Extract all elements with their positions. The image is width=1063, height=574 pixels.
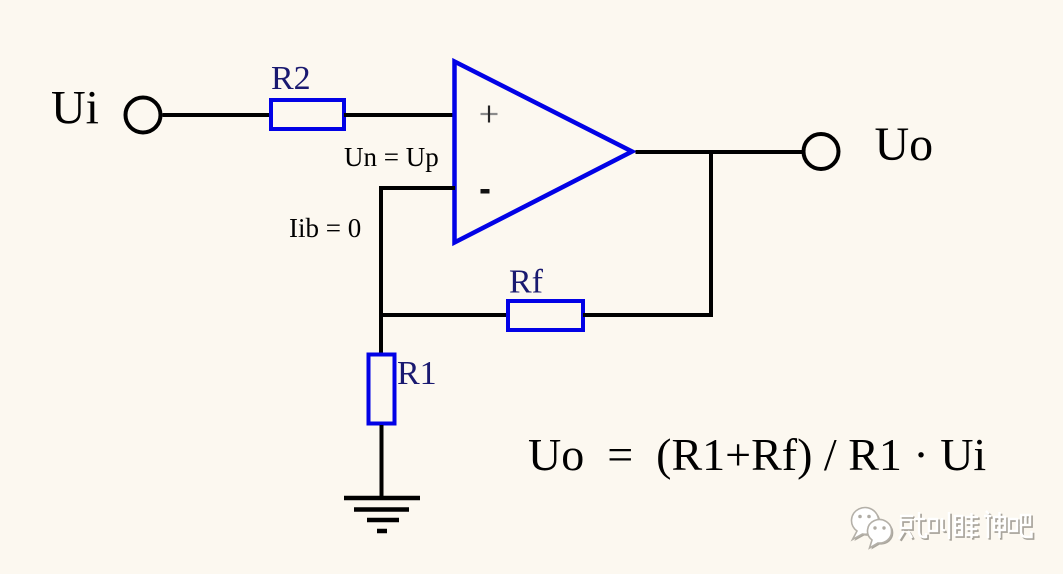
svg-text:Un = Up: Un = Up — [344, 142, 439, 172]
wire R1 to ground — [380, 425, 384, 498]
resistor R2 — [271, 100, 344, 129]
svg-text:R2: R2 — [271, 60, 311, 97]
watermark logo face — [852, 508, 892, 548]
watermark text face — [899, 511, 1032, 539]
wire feedback right segment — [583, 313, 713, 317]
output terminal circle — [804, 134, 839, 169]
wire feedback left segment — [379, 313, 508, 317]
svg-text:Ui: Ui — [51, 82, 99, 135]
wire inverting node vertical down to R1 — [379, 186, 383, 353]
svg-text:Iib = 0: Iib = 0 — [289, 213, 361, 243]
wire input to R2 — [163, 113, 272, 117]
watermark text shadow — [901, 513, 1033, 541]
svg-text:Uo: Uo — [875, 118, 934, 171]
svg-text:Rf: Rf — [509, 264, 544, 301]
wire feedback vertical from output — [709, 150, 713, 317]
svg-text:R1: R1 — [397, 355, 437, 392]
op-amp U1 — [455, 62, 633, 243]
wire inverting input horizontal — [381, 186, 455, 190]
ground — [344, 498, 420, 531]
resistor R1 — [369, 355, 395, 424]
wire op-amp output to terminal — [636, 150, 804, 154]
svg-text:Uo = (R1+Rf) / R1 · Ui: Uo = (R1+Rf) / R1 · Ui — [528, 429, 986, 480]
op-amp + pin mark — [481, 106, 498, 123]
wire R2 to op-amp + input — [344, 113, 455, 117]
input terminal circle — [126, 98, 161, 133]
op-amp - pin mark — [481, 189, 490, 194]
watermark logo shadow — [853, 509, 893, 549]
resistor Rf — [508, 301, 583, 330]
watermark logo eyes — [858, 515, 886, 530]
